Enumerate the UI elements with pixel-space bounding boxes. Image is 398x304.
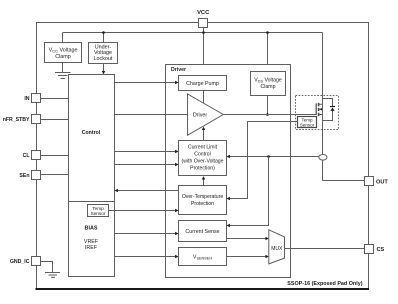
svg-text:Sensor: Sensor (300, 122, 315, 127)
block Current Sense (179, 221, 227, 242)
svg-text:(with Over-Voltage: (with Over-Voltage (182, 158, 224, 164)
wire rail drop to UVL (103, 33, 105, 43)
node junction on rail at VDS clamp (266, 31, 269, 34)
svg-text:MUX: MUX (271, 246, 283, 252)
transistor channel segments (318, 103, 320, 107)
block Current Limit Control (179, 141, 227, 176)
block BIAS (69, 202, 115, 277)
wire CL to Control (41, 155, 69, 157)
pin VCC (199, 19, 208, 28)
block Charge Pump (179, 76, 227, 91)
block Control (69, 75, 115, 202)
svg-text:IN: IN (24, 96, 29, 102)
svg-text:Lockout: Lockout (94, 56, 113, 62)
wire GND_IC to ground (41, 262, 53, 273)
svg-text:Driver: Driver (193, 112, 208, 118)
ground at GND_IC (45, 272, 60, 274)
block Under-Voltage Lockout (89, 43, 118, 64)
wire Control to CLC input 1 (115, 151, 176, 153)
wire sense line to CLC with arrow (230, 156, 319, 158)
svg-text:SSOP-16 (Exposed Pad Only): SSOP-16 (Exposed Pad Only) (287, 281, 362, 287)
diode body diode (323, 99, 333, 107)
svg-text:Sensor: Sensor (91, 211, 106, 216)
wire BIAS to Current Sense with arrow (115, 233, 176, 235)
svg-text:VDS Voltage: VDS Voltage (254, 78, 282, 84)
wire Current Sense to MUX with arrow (227, 238, 266, 240)
wire Control to CLC input 2 (115, 164, 176, 166)
svg-text:VCC: VCC (197, 10, 210, 16)
svg-text:Over-Temperature: Over-Temperature (182, 194, 223, 200)
wire MOSFET temp sensor to OTP (230, 122, 298, 199)
svg-text:IREF: IREF (85, 245, 98, 251)
ground below Vcc clamp (62, 63, 64, 73)
block Vcc Voltage Clamp (45, 43, 82, 63)
wire OTP to Control with arrow (118, 190, 179, 192)
wire rail to MOSFET drain (322, 33, 324, 105)
bottom rule (thick bottom edge) (36, 288, 370, 290)
wire BIAS temp sensor to OTP with arrow (109, 210, 176, 212)
transistor power MOSFET gate bar (315, 103, 317, 115)
pin nFR_STBY (32, 115, 41, 124)
node junction on sense line (267, 155, 270, 158)
block VDS Voltage Clamp (251, 72, 286, 96)
wire OTP up to CLC with arrow (203, 179, 205, 185)
wire VSENSEH to MUX with arrow (227, 256, 266, 258)
wire MOSFET source stub (319, 114, 322, 116)
svg-text:VREF: VREF (84, 239, 99, 245)
pin IN (32, 94, 41, 103)
wire VDS clamp to gate line (267, 96, 269, 115)
outer IC boundary box (37, 23, 369, 289)
svg-text:BIAS: BIAS (85, 225, 98, 231)
svg-text:Control: Control (82, 130, 101, 136)
mux MUX (269, 230, 285, 264)
wire rail drop to Vcc clamp (62, 33, 64, 43)
op-amp Driver triangle (188, 94, 224, 135)
wire CLC up to Driver amp with arrow (203, 130, 205, 141)
wire VCC rail (63, 32, 323, 34)
wire BIAS to VSENSEH with arrow (115, 256, 176, 258)
mosfet dashed box (296, 96, 339, 130)
svg-text:Current Limit: Current Limit (188, 144, 218, 150)
current sense element circle (319, 155, 327, 161)
pin OUT (365, 177, 374, 186)
wire Control to Charge Pump with arrow (115, 82, 176, 84)
node junction on rail at VCC (202, 31, 205, 34)
svg-text:GND_IC: GND_IC (10, 259, 30, 265)
wire VCC pin to charge pump (203, 28, 205, 76)
wire nFR_STBY to Control (41, 119, 69, 121)
svg-text:Clamp: Clamp (261, 84, 276, 90)
node junction on gate line (266, 113, 269, 116)
svg-text:SEn: SEn (19, 173, 29, 179)
wire Control to Driver amp input (115, 114, 188, 116)
wire UVL to Control with arrow (103, 64, 105, 72)
block Over-Temperature Protection (179, 186, 227, 215)
svg-text:Driver: Driver (171, 67, 186, 73)
svg-text:VCC Voltage: VCC Voltage (49, 48, 78, 54)
svg-text:Current Sense: Current Sense (185, 229, 219, 235)
wire source to OUT pin (323, 180, 365, 182)
wire MOSFET drain stub (319, 103, 322, 105)
wire SEn to Control (41, 174, 69, 176)
svg-text:CS: CS (377, 247, 385, 253)
block VSENSEH (179, 248, 227, 266)
pin CS (365, 245, 374, 254)
svg-text:Charge Pump: Charge Pump (186, 81, 219, 87)
pin GND_IC (32, 257, 41, 266)
svg-text:Clamp: Clamp (55, 54, 71, 60)
svg-text:CL: CL (23, 153, 31, 159)
pin CL (32, 151, 41, 160)
wire Driver amp output to MOSFET gate (223, 114, 316, 116)
wire MOSFET body stub with arrow (319, 108, 322, 110)
svg-text:Control: Control (194, 151, 210, 157)
big inner container box (166, 65, 291, 278)
svg-text:nFR_STBY: nFR_STBY (3, 117, 30, 123)
wire sense line down to Current Sense with arrow (230, 157, 269, 226)
block Temp Sensor (BIAS) (88, 205, 109, 217)
svg-text:OUT: OUT (376, 179, 388, 185)
svg-text:Protection: Protection (191, 201, 214, 207)
svg-text:Protection): Protection) (190, 165, 215, 171)
wire rail drop to VDS clamp (267, 33, 269, 72)
wire MOSFET source down to OUT (322, 105, 324, 155)
node junction on rail at UVL (102, 31, 105, 34)
pin SEn (32, 171, 41, 180)
wire IN to Control (41, 98, 69, 100)
wire MUX to CS pin (285, 248, 365, 250)
block Temp Sensor (MOSFET) (298, 117, 317, 128)
wire Charge Pump to Driver amp (203, 91, 205, 104)
